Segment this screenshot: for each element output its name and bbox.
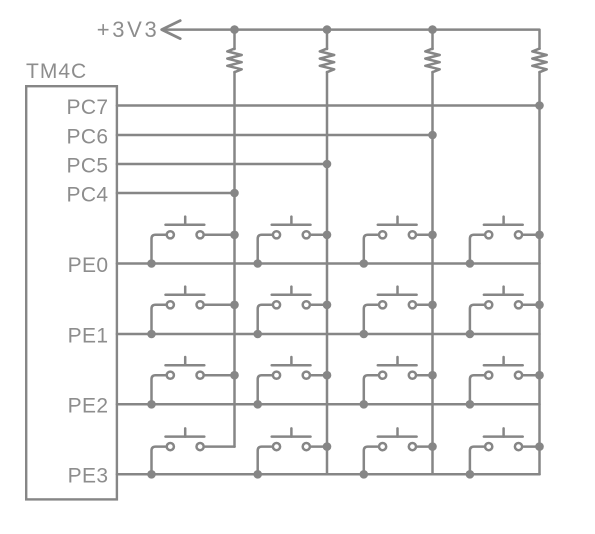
resistor R4 (pull-up on column 4) bbox=[532, 49, 546, 73]
junction row PE3 / switch S13 drop bbox=[147, 470, 156, 479]
wire switch S3 left contact down to row PE0 bbox=[364, 235, 378, 264]
wire switch S7 left contact down to row PE1 bbox=[364, 305, 378, 334]
wire switch S11 right contact to column 3 bbox=[417, 374, 432, 377]
junction column 3 / switch S7 right contact bbox=[428, 301, 437, 310]
pin label PC6 bbox=[66, 125, 108, 148]
switch S10 (row PE2, column 2) pushbutton bbox=[272, 357, 311, 379]
wire row PC5 from U1 to column bbox=[117, 163, 327, 166]
junction row PE1 / switch S7 drop bbox=[360, 330, 369, 339]
switch S9 (row PE2, column 1) pushbutton bbox=[166, 357, 205, 379]
switch S15 (row PE3, column 3) pushbutton bbox=[378, 428, 417, 450]
junction column 1 / switch S1 right contact bbox=[230, 231, 239, 240]
svg-text:PC7: PC7 bbox=[66, 96, 108, 119]
wire switch S2 left contact down to row PE0 bbox=[258, 235, 272, 264]
wire switch S14 right contact to column 2 bbox=[311, 445, 327, 448]
wire switch S11 left contact down to row PE2 bbox=[364, 375, 378, 404]
wire switch S7 right contact to column 3 bbox=[417, 304, 432, 307]
wire switch S15 right contact to column 3 bbox=[417, 445, 432, 448]
wire switch S1 left contact down to row PE0 bbox=[152, 235, 166, 264]
junction row PE0 / switch S2 drop bbox=[253, 259, 262, 268]
junction row PE3 / switch S14 drop bbox=[253, 470, 262, 479]
svg-text:PE3: PE3 bbox=[68, 465, 109, 488]
junction +3V3 rail / column 1 bbox=[230, 25, 239, 34]
junction column 1 / switch S9 right contact bbox=[230, 371, 239, 380]
svg-text:PC6: PC6 bbox=[66, 125, 108, 148]
wire switch S4 left contact down to row PE0 bbox=[470, 235, 484, 264]
switch S5 (row PE1, column 1) pushbutton bbox=[166, 287, 205, 309]
wire switch S15 left contact down to row PE3 bbox=[364, 447, 378, 475]
wire row PE3 from U1 to column 4 bbox=[117, 473, 540, 476]
wire switch S16 left contact down to row PE3 bbox=[470, 447, 484, 475]
junction row PE3 / switch S16 drop bbox=[466, 470, 475, 479]
junction row PE3 / switch S15 drop bbox=[360, 470, 369, 479]
wire switch S13 right contact to column 1 bbox=[205, 445, 234, 448]
junction column 2 / switch S14 right contact bbox=[323, 442, 332, 451]
power arrow +3V3 bbox=[162, 21, 181, 39]
svg-text:TM4C: TM4C bbox=[26, 60, 87, 83]
wire row PC7 from U1 to column bbox=[117, 104, 540, 107]
svg-text:PE1: PE1 bbox=[68, 324, 109, 347]
junction row PE2 / switch S11 drop bbox=[360, 400, 369, 409]
svg-text:+3V3: +3V3 bbox=[97, 17, 160, 42]
switch S12 (row PE2, column 4) pushbutton bbox=[484, 357, 523, 379]
junction row PE1 / switch S8 drop bbox=[466, 330, 475, 339]
junction +3V3 rail / column 2 bbox=[323, 25, 332, 34]
junction row PE0 / switch S3 drop bbox=[360, 259, 369, 268]
svg-text:PE0: PE0 bbox=[68, 254, 109, 277]
pin label PE3 bbox=[68, 465, 109, 488]
junction column 2 / switch S6 right contact bbox=[323, 301, 332, 310]
wire switch S6 left contact down to row PE1 bbox=[258, 305, 272, 334]
junction PC7 / column bbox=[535, 101, 544, 110]
resistor R2 (pull-up on column 2) bbox=[320, 49, 334, 73]
junction row PE0 / switch S1 drop bbox=[147, 259, 156, 268]
wire +3V3 rail (top horizontal, corner down into column 4) bbox=[163, 30, 540, 49]
junction PC6 / column bbox=[428, 131, 437, 140]
pin label PC4 bbox=[66, 183, 108, 206]
wire switch S6 right contact to column 2 bbox=[311, 304, 327, 307]
wire switch S3 right contact to column 3 bbox=[417, 234, 432, 237]
junction column 2 / switch S10 right contact bbox=[323, 371, 332, 380]
wire switch S8 right contact to column 4 bbox=[524, 304, 540, 307]
junction column 4 / switch S12 right contact bbox=[535, 371, 544, 380]
junction column 3 / switch S3 right contact bbox=[428, 231, 437, 240]
junction row PE1 / switch S5 drop bbox=[147, 330, 156, 339]
switch S6 (row PE1, column 2) pushbutton bbox=[272, 287, 311, 309]
wire row PE1 from U1 to column 4 bbox=[117, 333, 540, 336]
junction PC4 / column bbox=[230, 189, 239, 198]
wire switch S1 right contact to column 1 bbox=[205, 234, 234, 237]
wire switch S10 left contact down to row PE2 bbox=[258, 375, 272, 404]
wire switch S10 right contact to column 2 bbox=[311, 374, 327, 377]
pin label PC7 bbox=[66, 96, 108, 119]
wire row PC4 from U1 to column bbox=[117, 192, 235, 195]
wire column 2 top stub from rail to resistor bbox=[326, 30, 329, 49]
label TM4C bbox=[26, 60, 87, 83]
junction row PE1 / switch S6 drop bbox=[253, 330, 262, 339]
switch S13 (row PE3, column 1) pushbutton bbox=[166, 428, 205, 450]
wire switch S5 right contact to column 1 bbox=[205, 304, 234, 307]
junction column 1 / switch S5 right contact bbox=[230, 301, 239, 310]
resistor R3 (pull-up on column 3) bbox=[425, 49, 439, 73]
pin label PC5 bbox=[66, 154, 108, 177]
wire column 1 top stub from rail to resistor bbox=[233, 30, 236, 49]
junction column 2 / switch S2 right contact bbox=[323, 231, 332, 240]
wire switch S8 left contact down to row PE1 bbox=[470, 305, 484, 334]
wire row PE2 from U1 to column 4 bbox=[117, 403, 540, 406]
junction column 3 / switch S15 right contact bbox=[428, 442, 437, 451]
wire switch S2 right contact to column 2 bbox=[311, 234, 327, 237]
junction column 4 / switch S4 right contact bbox=[535, 231, 544, 240]
junction column 3 / switch S11 right contact bbox=[428, 371, 437, 380]
wire switch S13 left contact down to row PE3 bbox=[152, 447, 166, 475]
switch S8 (row PE1, column 4) pushbutton bbox=[484, 287, 523, 309]
wire row PE0 from U1 to column 4 bbox=[117, 262, 540, 265]
resistor R1 (pull-up on column 1) bbox=[227, 49, 241, 73]
junction row PE0 / switch S4 drop bbox=[466, 259, 475, 268]
junction PC5 / column bbox=[323, 160, 332, 169]
junction row PE2 / switch S12 drop bbox=[466, 400, 475, 409]
wire switch S4 right contact to column 4 bbox=[524, 234, 540, 237]
svg-text:PE2: PE2 bbox=[68, 395, 109, 418]
wire switch S5 left contact down to row PE1 bbox=[152, 305, 166, 334]
wire column 4 vertical bbox=[538, 72, 541, 474]
junction +3V3 rail / column 3 bbox=[428, 25, 437, 34]
switch S7 (row PE1, column 3) pushbutton bbox=[378, 287, 417, 309]
wire switch S16 right contact to column 4 bbox=[524, 445, 540, 448]
svg-text:PC4: PC4 bbox=[66, 183, 108, 206]
wire column 3 top stub from rail to resistor bbox=[431, 30, 434, 49]
wire column 3 vertical bbox=[431, 72, 434, 474]
pin label PE1 bbox=[68, 324, 109, 347]
switch S1 (row PE0, column 1) pushbutton bbox=[166, 217, 205, 239]
switch S4 (row PE0, column 4) pushbutton bbox=[484, 217, 523, 239]
switch S3 (row PE0, column 3) pushbutton bbox=[378, 217, 417, 239]
wire switch S9 left contact down to row PE2 bbox=[152, 375, 166, 404]
IC U1 TM4C microcontroller body bbox=[26, 86, 117, 499]
power net label +3V3 bbox=[97, 17, 160, 42]
switch S2 (row PE0, column 2) pushbutton bbox=[272, 217, 311, 239]
svg-text:PC5: PC5 bbox=[66, 154, 108, 177]
junction column 4 / switch S16 right contact bbox=[535, 442, 544, 451]
wire column 2 vertical bbox=[326, 72, 329, 474]
wire switch S14 left contact down to row PE3 bbox=[258, 447, 272, 475]
switch S16 (row PE3, column 4) pushbutton bbox=[484, 428, 523, 450]
wire switch S12 right contact to column 4 bbox=[524, 374, 540, 377]
switch S14 (row PE3, column 2) pushbutton bbox=[272, 428, 311, 450]
wire switch S12 left contact down to row PE2 bbox=[470, 375, 484, 404]
junction column 4 / switch S8 right contact bbox=[535, 301, 544, 310]
junction row PE2 / switch S10 drop bbox=[253, 400, 262, 409]
wire column 1 vertical bbox=[233, 72, 236, 447]
pin label PE0 bbox=[68, 254, 109, 277]
junction row PE2 / switch S9 drop bbox=[147, 400, 156, 409]
pin label PE2 bbox=[68, 395, 109, 418]
switch S11 (row PE2, column 3) pushbutton bbox=[378, 357, 417, 379]
wire row PC6 from U1 to column bbox=[117, 134, 433, 137]
wire switch S9 right contact to column 1 bbox=[205, 374, 234, 377]
